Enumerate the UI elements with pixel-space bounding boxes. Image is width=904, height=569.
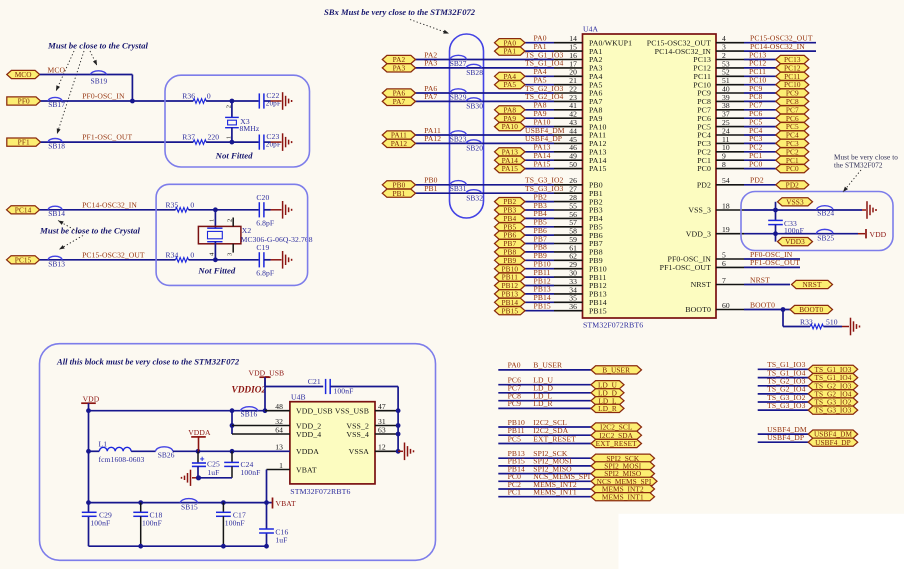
svg-text:NRST: NRST	[750, 275, 770, 284]
svg-text:PA1: PA1	[503, 47, 516, 56]
svg-text:TS_G3_IO3: TS_G3_IO3	[525, 184, 564, 193]
svg-text:VBAT: VBAT	[296, 465, 317, 474]
svg-text:PF0-OSC_IN: PF0-OSC_IN	[82, 92, 125, 101]
svg-text:8: 8	[722, 160, 726, 169]
svg-text:PA12: PA12	[391, 139, 408, 148]
svg-text:100nF: 100nF	[225, 518, 245, 527]
svg-text:PF1-OSC_OUT: PF1-OSC_OUT	[750, 258, 800, 267]
svg-text:SB19: SB19	[91, 76, 108, 85]
svg-text:EXT_RESET: EXT_RESET	[533, 434, 576, 443]
svg-text:6.8pF: 6.8pF	[256, 268, 274, 277]
svg-text:PA12: PA12	[424, 134, 441, 143]
svg-text:PD2: PD2	[786, 180, 800, 189]
svg-text:PA3: PA3	[424, 59, 437, 68]
svg-text:50: 50	[569, 160, 577, 169]
svg-text:VDD_4: VDD_4	[296, 430, 321, 439]
svg-text:Must be close to the Crystal: Must be close to the Crystal	[39, 225, 141, 235]
svg-text:100nF: 100nF	[90, 518, 110, 527]
svg-text:MCO: MCO	[48, 66, 66, 75]
svg-text:SB31: SB31	[450, 184, 467, 193]
svg-text:VDD_3: VDD_3	[686, 229, 711, 238]
svg-text:U4B: U4B	[291, 393, 306, 402]
svg-text:MEMS_INT1: MEMS_INT1	[533, 488, 577, 497]
svg-text:C21: C21	[308, 377, 321, 386]
svg-text:SB18: SB18	[48, 141, 65, 150]
svg-text:PF1-OSC_OUT: PF1-OSC_OUT	[660, 263, 711, 272]
svg-text:TS_G3_IO3: TS_G3_IO3	[767, 401, 806, 410]
svg-text:PC9: PC9	[508, 399, 521, 408]
svg-text:Not Fitted: Not Fitted	[197, 266, 235, 276]
svg-text:19: 19	[722, 225, 730, 234]
svg-text:LD_R: LD_R	[533, 399, 553, 408]
svg-text:SB25: SB25	[817, 234, 834, 243]
svg-text:PB1: PB1	[424, 184, 437, 193]
svg-text:PB1: PB1	[392, 189, 405, 198]
svg-text:100nF: 100nF	[334, 387, 354, 396]
svg-text:SB26: SB26	[158, 451, 175, 460]
svg-text:PC0: PC0	[749, 159, 762, 168]
svg-text:0: 0	[207, 92, 211, 101]
svg-text:BOOT0: BOOT0	[799, 305, 823, 314]
svg-text:SB14: SB14	[48, 209, 65, 218]
svg-text:PA0: PA0	[508, 361, 521, 370]
svg-text:VDD: VDD	[870, 230, 887, 239]
svg-text:MC306-G-06Q-32.768: MC306-G-06Q-32.768	[241, 235, 313, 244]
svg-text:PA15: PA15	[534, 159, 551, 168]
svg-text:6.8pF: 6.8pF	[256, 218, 274, 227]
svg-text:VDDA: VDDA	[296, 447, 319, 456]
svg-text:SBx Must be very close to the: SBx Must be very close to the STM32F072	[324, 7, 476, 17]
svg-text:U4A: U4A	[583, 25, 598, 34]
svg-text:60: 60	[722, 301, 730, 310]
svg-text:SB17: SB17	[48, 100, 65, 109]
svg-text:SB28: SB28	[466, 68, 483, 77]
svg-text:PC0: PC0	[697, 164, 711, 173]
svg-text:12: 12	[378, 443, 386, 452]
svg-text:VSSA: VSSA	[349, 447, 370, 456]
svg-text:13: 13	[275, 443, 283, 452]
svg-text:VSS_4: VSS_4	[346, 430, 369, 439]
svg-text:R33: R33	[800, 317, 813, 326]
svg-text:MEMS_INT1: MEMS_INT1	[602, 492, 644, 501]
svg-text:47: 47	[378, 402, 386, 411]
svg-text:All this block must be very cl: All this block must be very close to the…	[56, 357, 240, 367]
svg-text:R37: R37	[182, 133, 195, 142]
svg-text:2: 2	[226, 219, 233, 222]
svg-text:SB13: SB13	[48, 260, 65, 269]
svg-text:2: 2	[225, 105, 232, 108]
svg-text:7: 7	[722, 276, 726, 285]
svg-text:STM32F072RBT6: STM32F072RBT6	[583, 321, 643, 330]
svg-text:PD2: PD2	[750, 176, 764, 185]
svg-text:PC14: PC14	[15, 205, 32, 214]
svg-text:VDD: VDD	[83, 394, 100, 403]
svg-text:USBF4_DP: USBF4_DP	[767, 433, 804, 442]
svg-text:54: 54	[722, 176, 730, 185]
svg-text:EXT_RESET: EXT_RESET	[596, 439, 637, 448]
svg-text:USBF4_DP: USBF4_DP	[525, 134, 562, 143]
svg-text:64: 64	[275, 425, 283, 434]
svg-text:fcm1608-0603: fcm1608-0603	[99, 455, 145, 464]
svg-text:PA5: PA5	[503, 80, 516, 89]
svg-text:BOOT0: BOOT0	[685, 305, 711, 314]
svg-text:SB29: SB29	[450, 92, 467, 101]
svg-text:STM32F072RBT6: STM32F072RBT6	[290, 487, 350, 496]
svg-text:the STM32F072: the STM32F072	[834, 162, 883, 170]
svg-text:SB32: SB32	[466, 193, 483, 202]
svg-text:100nF: 100nF	[241, 468, 261, 477]
svg-text:+: +	[200, 455, 205, 464]
svg-text:0: 0	[190, 250, 194, 259]
svg-text:PA15: PA15	[589, 164, 606, 173]
svg-text:SB27: SB27	[450, 59, 467, 68]
svg-text:PF0: PF0	[18, 97, 30, 106]
svg-text:PA7: PA7	[393, 97, 406, 106]
svg-text:PF1: PF1	[18, 138, 30, 147]
svg-text:VDD_USB: VDD_USB	[249, 368, 285, 377]
svg-text:0: 0	[190, 200, 194, 209]
svg-text:L1: L1	[99, 440, 108, 449]
svg-text:Must be very close to: Must be very close to	[834, 154, 898, 162]
svg-text:PB15: PB15	[534, 302, 551, 311]
svg-text:C19: C19	[256, 243, 269, 252]
svg-text:1uF: 1uF	[275, 536, 287, 545]
svg-text:510: 510	[826, 317, 838, 326]
svg-text:PC1: PC1	[508, 488, 521, 497]
svg-text:8MHz: 8MHz	[240, 124, 260, 133]
svg-text:36: 36	[569, 302, 577, 311]
svg-text:Must be close to the Crystal: Must be close to the Crystal	[47, 41, 149, 51]
svg-text:PC15: PC15	[15, 255, 32, 264]
svg-text:C20: C20	[256, 193, 269, 202]
svg-text:PC0: PC0	[786, 164, 799, 173]
svg-text:1: 1	[225, 136, 232, 139]
svg-text:PA7: PA7	[424, 92, 437, 101]
svg-text:1: 1	[209, 219, 216, 222]
svg-text:TS_G3_IO3: TS_G3_IO3	[815, 406, 852, 415]
svg-text:48: 48	[275, 402, 283, 411]
svg-text:PC14-OSC32_IN: PC14-OSC32_IN	[82, 200, 137, 209]
svg-text:VBAT: VBAT	[276, 499, 296, 508]
svg-text:B_USER: B_USER	[533, 361, 563, 370]
svg-text:SB23: SB23	[450, 134, 467, 143]
svg-text:PD2: PD2	[697, 181, 711, 190]
svg-text:SB20: SB20	[466, 144, 483, 153]
svg-text:NRST: NRST	[802, 280, 821, 289]
svg-text:SB15: SB15	[181, 502, 198, 511]
svg-text:TS_G2_IO4: TS_G2_IO4	[525, 92, 564, 101]
svg-text:B_USER: B_USER	[602, 366, 630, 375]
svg-text:VDD_USB: VDD_USB	[296, 407, 333, 416]
svg-text:100nF: 100nF	[142, 518, 162, 527]
svg-text:PA15: PA15	[502, 164, 519, 173]
svg-text:220: 220	[208, 133, 220, 142]
svg-text:PC5: PC5	[508, 434, 521, 443]
svg-text:1: 1	[279, 461, 283, 470]
svg-text:VSS_USB: VSS_USB	[335, 407, 369, 416]
svg-text:1uF: 1uF	[207, 468, 219, 477]
svg-text:PA3: PA3	[393, 64, 406, 73]
svg-text:USBF4_DP: USBF4_DP	[815, 438, 851, 447]
svg-text:TS_G1_IO4: TS_G1_IO4	[525, 59, 564, 68]
svg-text:63: 63	[378, 425, 386, 434]
svg-text:MCO: MCO	[15, 70, 32, 79]
svg-text:PB15: PB15	[501, 306, 518, 315]
svg-text:SB24: SB24	[817, 209, 834, 218]
svg-text:PF1-OSC_OUT: PF1-OSC_OUT	[82, 133, 132, 142]
svg-text:VDDIO2: VDDIO2	[232, 385, 267, 395]
svg-text:6: 6	[722, 259, 726, 268]
svg-text:VSS_3: VSS_3	[688, 206, 711, 215]
svg-text:SB30: SB30	[466, 102, 483, 111]
svg-text:LD_R: LD_R	[598, 404, 617, 413]
svg-text:18: 18	[722, 201, 730, 210]
svg-text:NRST: NRST	[691, 280, 711, 289]
svg-text:BOOT0: BOOT0	[750, 300, 775, 309]
svg-text:VDDA: VDDA	[188, 428, 211, 437]
svg-text:PA10: PA10	[502, 122, 519, 131]
svg-text:Not Fitted: Not Fitted	[215, 150, 253, 160]
svg-text:PB15: PB15	[589, 306, 607, 315]
svg-text:VSS3: VSS3	[786, 197, 804, 206]
svg-text:PC15-OSC32_OUT: PC15-OSC32_OUT	[82, 250, 145, 259]
svg-text:VDD3: VDD3	[785, 237, 805, 246]
svg-text:SB16: SB16	[241, 410, 258, 419]
